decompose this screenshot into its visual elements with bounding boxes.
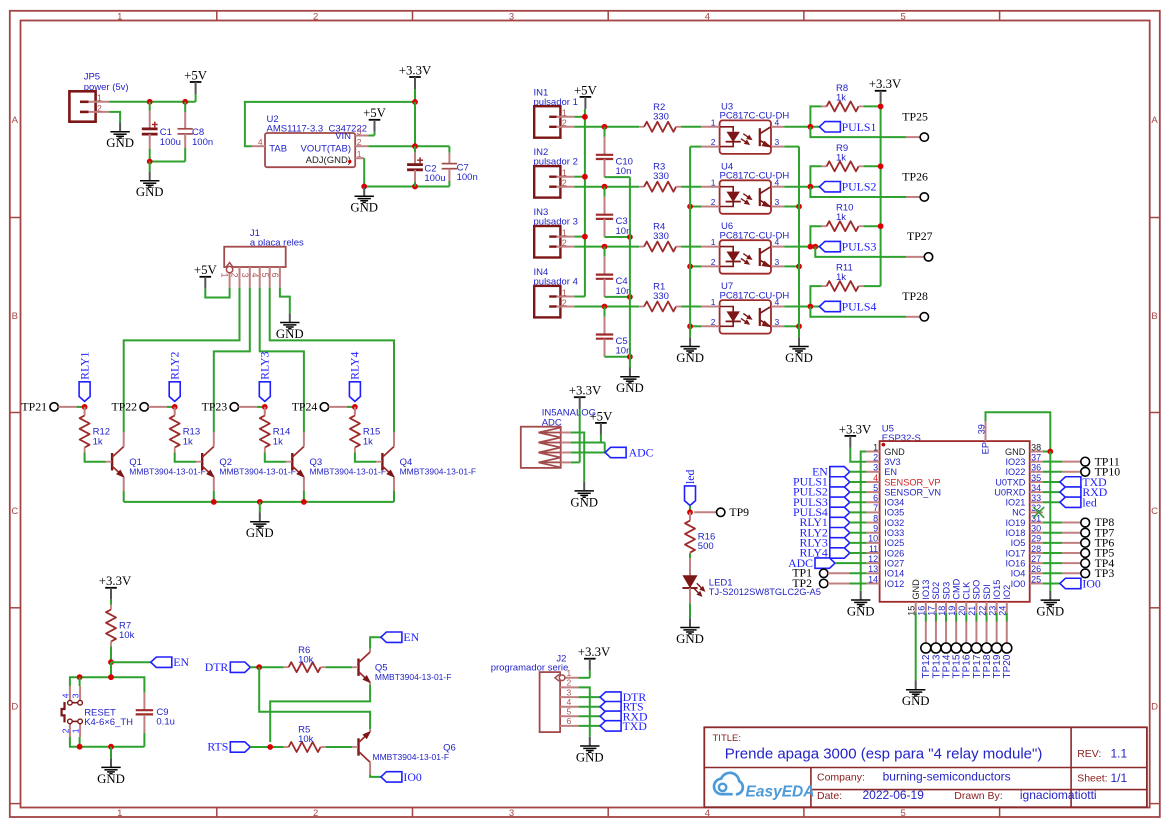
wire Q5 collector to EN flag [370,637,381,648]
test point TP4 at U5 pin 27 [1043,562,1062,564]
wire R9 left down to pin4 node [810,166,821,186]
svg-text:GND: GND [785,351,813,365]
wire IN2 pin2 to resistor [574,186,639,188]
wire test point TP27 [815,247,906,257]
net flag RXD at J2 [600,711,621,721]
svg-text:1k: 1k [836,212,846,223]
ground GND below JP5 pin2 [119,123,121,132]
svg-text:3: 3 [567,687,572,697]
svg-text:MMBT3904-13-01-F: MMBT3904-13-01-F [129,467,206,477]
svg-text:CMD: CMD [951,578,961,599]
svg-text:9: 9 [873,524,878,534]
net flag EN at reset [111,661,151,663]
wire R2 to opto pin1 [681,126,701,128]
svg-text:GND: GND [616,381,644,395]
svg-text:EN: EN [403,630,419,644]
svg-text:TP24: TP24 [292,400,318,414]
node junction +5V rail at IN3 [582,234,588,240]
wire C3 bottom to ground rail [605,236,630,238]
svg-text:SD3: SD3 [941,582,951,600]
svg-text:IO18: IO18 [1005,528,1025,538]
wire R15 to Q4 base [355,453,376,462]
svg-text:led: led [683,469,697,484]
svg-text:4: 4 [258,137,263,147]
wire opto pin4 to PULS1 node [784,126,819,128]
svg-text:330: 330 [653,291,669,302]
svg-text:Drawn By:: Drawn By: [954,790,1002,802]
wire U5 pin15 to ground [915,613,917,681]
svg-text:28: 28 [1031,544,1041,554]
svg-text:100u: 100u [424,173,445,184]
svg-text:GND: GND [136,185,164,199]
resistor R5 10k [284,746,289,748]
svg-text:IO0: IO0 [1011,579,1026,589]
svg-text:IO17: IO17 [1005,548,1025,558]
svg-text:1: 1 [562,228,567,238]
test point TP19 at U5 pin 23 [996,613,998,622]
svg-text:IO33: IO33 [884,528,904,538]
wire TP9 [694,511,716,513]
svg-text:+3.3V: +3.3V [839,422,872,436]
svg-text:35: 35 [1031,473,1041,483]
node junction pin2 column row 3 [602,244,608,250]
svg-text:1k: 1k [836,272,846,283]
wire J1 pin6 to ground [280,288,290,314]
svg-text:IO15: IO15 [992,580,1002,600]
wire U5 right GND rail [1049,452,1051,591]
node junction at C8 top [182,99,188,105]
svg-text:1: 1 [357,149,362,159]
svg-text:3: 3 [71,693,81,698]
wire R8 right to +3.3V rail [864,105,881,107]
svg-text:6: 6 [873,493,878,503]
svg-text:MMBT3904-13-01-F: MMBT3904-13-01-F [373,752,450,762]
resistor R13 1k [174,407,176,414]
svg-text:B: B [12,311,18,322]
svg-text:1: 1 [711,117,716,127]
svg-text:10: 10 [868,534,878,544]
wire reset top rail [70,677,144,692]
node junction RLY4/R15 [352,404,358,410]
node junction cap rail at C4 [627,294,633,300]
net flag ADC [605,447,626,457]
svg-text:1: 1 [711,237,716,247]
wire IN5 pin4 to +3.3V [571,461,580,463]
svg-text:4: 4 [775,297,780,307]
wire IN4 pin2 to resistor [574,306,639,308]
svg-text:IO4: IO4 [1011,569,1026,579]
svg-text:TP26: TP26 [902,169,928,183]
svg-text:GND: GND [350,201,378,215]
node junction pin38/EP [1047,449,1053,455]
svg-text:A: A [1151,115,1158,126]
wire EP pin39 to GND net [986,412,1051,451]
transistor Q3 MMBT3904-13-01-F [291,453,293,470]
svg-text:2: 2 [562,298,567,308]
svg-text:B: B [1151,311,1157,322]
svg-text:GND: GND [911,579,921,600]
svg-text:+3.3V: +3.3V [399,63,432,77]
test point TP9 [717,508,725,516]
wire U2 TAB loop to +3.3V node [245,102,415,146]
svg-text:PULS3: PULS3 [842,240,877,254]
svg-text:TP2: TP2 [792,576,812,590]
ground GND below U5 right [1049,591,1051,600]
node junction cap rail at C5 [627,354,633,360]
wire R11 right to +3.3V rail [864,285,881,287]
svg-text:TP21: TP21 [21,400,47,414]
ground GND below U5 left [860,591,862,600]
svg-text:2: 2 [711,317,716,327]
svg-text:26: 26 [1031,564,1041,574]
wire R9 right to +3.3V rail [864,165,881,167]
svg-text:+3.3V: +3.3V [569,384,602,398]
resistor R14 1k [264,407,266,414]
wire J2 pin2 to ground [579,687,590,736]
svg-text:34: 34 [1031,483,1041,493]
svg-text:ADC: ADC [629,446,654,460]
svg-text:IO16: IO16 [1005,558,1025,568]
svg-text:2: 2 [711,137,716,147]
svg-text:IO0: IO0 [1082,576,1100,590]
test point TP14 at U5 pin 18 [945,613,947,622]
net flag PULS4 [819,301,840,311]
svg-text:D: D [1151,702,1158,713]
wire J2 pin4 to RTS [579,706,601,708]
svg-text:30: 30 [1031,524,1041,534]
svg-text:10n: 10n [616,166,632,177]
wire opto cathode ground rail [689,147,691,338]
ground GND below LED1 [689,618,691,627]
wire R6 to Q5 base [326,666,353,668]
svg-text:100n: 100n [457,172,478,183]
wire reset bottom rail [70,737,144,747]
svg-text:38: 38 [1031,442,1041,452]
svg-text:TP28: TP28 [902,289,928,303]
svg-text:39: 39 [976,424,986,434]
svg-text:2: 2 [567,678,572,688]
node junction RTS [267,744,273,750]
svg-text:RTS: RTS [207,740,228,754]
svg-text:12: 12 [868,554,878,564]
svg-text:+3.3V: +3.3V [869,77,902,91]
svg-text:5: 5 [567,707,572,717]
svg-text:25: 25 [1031,574,1041,584]
node junction pin2 column row 1 [602,124,608,130]
svg-text:+5V: +5V [194,263,218,277]
svg-text:37: 37 [1031,452,1041,462]
capacitor C1 100u [149,102,151,111]
wire J2 pin3 to DTR [579,696,601,698]
svg-text:3: 3 [873,463,878,473]
svg-text:2: 2 [562,238,567,248]
wire DTR to R6 [250,666,283,668]
wire test point TP26 [810,187,906,197]
transistor Q4 MMBT3904-13-01-F [381,453,383,470]
wire JP5 pin1 to +5V rail [109,101,196,103]
svg-text:C: C [11,506,18,517]
svg-text:+3.3V: +3.3V [99,574,132,588]
svg-text:REV:: REV: [1077,748,1101,760]
test point TP13 at U5 pin 17 [935,613,937,622]
node junction opto pin4 / PULS2 [808,184,814,190]
svg-text:1k: 1k [836,92,846,103]
node junction cathode rail U7 [687,323,693,329]
ground GND below IN5 [583,482,585,491]
resistor R9 1k [822,165,827,167]
svg-text:VOUT(TAB): VOUT(TAB) [301,143,352,154]
net flag TXD at U5 pin 35 [1043,481,1060,483]
svg-text:1k: 1k [93,436,103,447]
wire IN5 pin2 jog to ADC row [604,443,606,453]
wire IN4 pin1 to +5V rail [574,296,585,298]
wire J2 pin5 to RXD [579,715,601,717]
wire TP22 to node [148,406,166,408]
test point TP17 at U5 pin 21 [975,613,977,622]
svg-text:1k: 1k [836,152,846,163]
net flag PULS2 at U5 pin 5 [830,487,850,497]
wire led flag to node [689,506,691,513]
node junction opto pin4 / PULS4 [808,304,814,310]
wire +3.3V node down to VOUT net [414,102,416,146]
node junction RLY2/R13 [172,404,178,410]
svg-text:100u: 100u [160,137,181,148]
svg-text:SDO: SDO [972,580,982,600]
wire C5 bottom to ground rail [605,356,630,358]
wire J1 pin2 to Q1 collector [124,288,240,432]
ground GND below U5 pin15 [915,681,917,690]
svg-text:500: 500 [698,541,714,552]
wire TP21 to node [58,406,76,408]
svg-text:3V3: 3V3 [884,457,900,467]
svg-text:IO12: IO12 [884,579,904,589]
node junction emitter rail U6 [796,264,802,270]
wire J2 pin6 to TXD [579,725,601,727]
transistor Q1 MMBT3904-13-01-F [111,453,113,470]
svg-text:1: 1 [117,808,122,819]
ground GND below cathode rail [689,337,691,346]
svg-text:VIN: VIN [335,131,351,142]
svg-text:EN: EN [173,655,189,669]
wire TP23 to node [239,406,257,408]
svg-text:IO34: IO34 [884,498,904,508]
svg-text:0.1u: 0.1u [156,717,175,728]
wire IN5 pin1 to ground [571,433,585,482]
test point TP27 [924,253,932,261]
net flag RLY1 [79,382,90,402]
svg-text:TP22: TP22 [112,400,138,414]
resistor R8 1k [822,105,827,107]
svg-text:EN: EN [884,467,897,477]
svg-text:1.1: 1.1 [1111,747,1128,761]
svg-text:13: 13 [868,564,878,574]
svg-text:GND: GND [847,604,875,618]
svg-text:3: 3 [240,273,250,278]
net flag PULS3 at U5 pin 6 [830,497,850,507]
svg-text:3: 3 [509,11,514,22]
svg-text:MMBT3904-13-01-F: MMBT3904-13-01-F [375,672,452,682]
svg-text:6: 6 [270,273,280,278]
svg-text:10k: 10k [298,734,314,745]
svg-text:1: 1 [562,288,567,298]
capacitor C7 100n [448,146,450,152]
svg-text:1: 1 [220,273,230,278]
wire Q2 emitter to rail [213,491,215,502]
svg-text:SDI: SDI [982,584,992,599]
wire U3 pin3 to emitter rail [784,146,799,148]
net flag ADC at U5 pin 12 [815,558,835,568]
wire TP24 to node [329,406,347,408]
svg-text:1: 1 [711,297,716,307]
svg-text:4: 4 [873,473,878,483]
svg-text:330: 330 [653,231,669,242]
svg-text:10k: 10k [119,630,135,641]
wire R10 left down to pin4 node [810,226,821,246]
svg-text:3: 3 [509,808,514,819]
svg-text:MMBT3904-13-01-F: MMBT3904-13-01-F [310,467,387,477]
svg-text:5: 5 [873,483,878,493]
svg-text:TP23: TP23 [202,400,228,414]
ground GND below emitter rail [798,337,800,346]
capacitor C2 100u [414,146,416,152]
svg-text:IO35: IO35 [884,508,904,518]
svg-text:GND: GND [246,526,274,540]
net flag IO0 at U5 pin 25 [1043,582,1060,584]
svg-text:PULS4: PULS4 [842,300,877,314]
svg-text:NC: NC [1012,508,1026,518]
svg-text:3: 3 [357,127,362,137]
svg-text:4: 4 [567,697,572,707]
svg-text:2022-06-19: 2022-06-19 [863,788,925,802]
wire opto pin4 to PULS2 node [784,186,819,188]
svg-text:1: 1 [117,11,122,22]
svg-text:3: 3 [775,137,780,147]
svg-text:Prende apaga 3000 (esp para "4: Prende apaga 3000 (esp para "4 relay mod… [725,746,1043,763]
wire Q3 emitter to rail [303,491,305,502]
resistor R6 10k [284,666,289,668]
wire U6 pin3 to emitter rail [784,265,799,267]
svg-text:EasyEDA: EasyEDA [746,784,815,801]
svg-text:GND: GND [97,772,125,786]
svg-text:CLK: CLK [962,581,972,600]
wire opto pin4 to PULS4 node [784,306,819,308]
wire U2 ground rail [364,186,449,188]
svg-text:4: 4 [775,117,780,127]
net flag PULS3 [819,241,840,251]
svg-text:4: 4 [775,177,780,187]
node junction +5V rail at IN1 [582,114,588,120]
svg-text:330: 330 [653,171,669,182]
node junction reset rail center [108,674,114,680]
wire IN2 pin1 to +5V rail [574,176,585,178]
svg-text:IO21: IO21 [1005,498,1025,508]
svg-text:TAB: TAB [269,143,287,154]
svg-text:100n: 100n [192,137,213,148]
wire J1 pin3 to Q2 collector [214,288,250,432]
svg-text:GND: GND [676,351,704,365]
node junction cathode rail U6 [687,264,693,270]
svg-text:5: 5 [260,273,270,278]
wire U3 pin2 to cathode rail [690,146,701,148]
no-connect X at U5 pin 32 [1033,507,1044,518]
net flag RLY3 [259,382,270,402]
wire +3.3V rail down R8-R11 [880,106,882,286]
svg-text:1k: 1k [363,436,373,447]
svg-text:RLY4: RLY4 [348,351,362,379]
svg-text:1k: 1k [273,436,283,447]
wire U4 pin2 to cathode rail [690,206,701,208]
svg-text:6: 6 [567,716,572,726]
title block frame [704,727,1147,807]
svg-text:MMBT3904-13-01-F: MMBT3904-13-01-F [219,467,296,477]
wire U6 pin2 to cathode rail [690,265,701,267]
test point TP10 at U5 pin 36 [1043,471,1062,473]
wire R7 to EN node [110,647,112,663]
svg-text:IO14: IO14 [884,569,904,579]
svg-text:14: 14 [868,574,878,584]
svg-text:11: 11 [869,544,878,554]
wire R5 to Q6 base [326,746,353,748]
svg-text:3: 3 [775,257,780,267]
svg-text:1: 1 [873,442,878,452]
svg-text:TP9: TP9 [729,505,749,519]
svg-text:IO27: IO27 [884,558,904,568]
capacitor C10 10n [604,127,606,137]
wire J2 pin1 to +3.3V [579,677,590,679]
wire Q4 emitter to rail [393,491,395,502]
resistor R11 1k [822,285,827,287]
wire U7 pin2 to cathode rail [690,325,701,327]
svg-text:7: 7 [873,503,878,513]
wire R11 left down to pin4 node [810,286,821,306]
svg-text:2: 2 [562,118,567,128]
svg-text:IO2: IO2 [1002,585,1012,600]
svg-text:2: 2 [60,728,70,733]
svg-text:5: 5 [901,11,906,22]
svg-text:+3.3V: +3.3V [578,645,611,659]
node junction reset rail pin3 [77,674,83,680]
svg-text:4: 4 [775,237,780,247]
LED LED1 TJ-S2012SW8TGLC2G-A5 [689,554,691,559]
net flag RLY4 [349,382,360,402]
svg-text:8: 8 [873,513,878,523]
svg-text:IO22: IO22 [1005,467,1025,477]
node junction at C1 top [147,99,153,105]
net flag EN at Q5 [381,632,402,642]
test point TP26 [920,193,928,201]
net flag DTR at J2 [600,692,621,702]
svg-text:led: led [1082,495,1097,509]
net flag RXD at U5 pin 34 [1043,491,1060,493]
resistor R15 1k [354,407,356,414]
wire opto pin4 to PULS3 node [784,246,819,248]
net flag RLY4 at U5 pin 11 [830,548,850,558]
svg-text:4: 4 [705,808,710,819]
test point TP16 at U5 pin 20 [965,613,967,622]
svg-text:K4-6×6_TH: K4-6×6_TH [84,717,133,728]
node junction emitter rail U7 [796,323,802,329]
wire switch pin1 to bottom rail [79,737,81,747]
transistor Q6 MMBT3904-13-01-F [357,738,359,755]
svg-text:Company:: Company: [817,771,865,783]
svg-text:TP27: TP27 [907,229,933,243]
svg-text:JP5: JP5 [84,71,100,82]
capacitor C9 0.1u [143,693,145,710]
svg-text:1k: 1k [183,436,193,447]
node junction pin2 column row 4 [602,304,608,310]
svg-text:SENSOR_VP: SENSOR_VP [884,477,940,487]
svg-text:MMBT3904-13-01-F: MMBT3904-13-01-F [400,467,477,477]
